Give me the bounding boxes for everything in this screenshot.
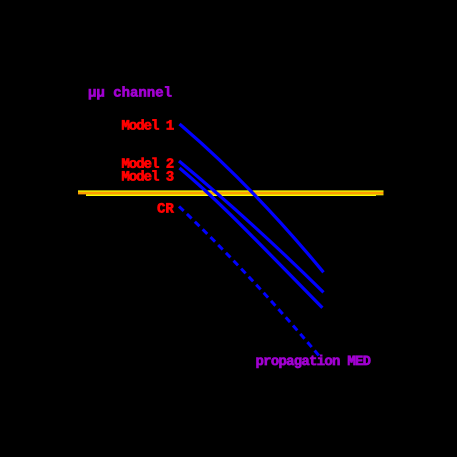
label propagation MED	[256, 355, 370, 368]
limit line lower yellow stripe	[86, 194, 376, 196]
label Model 1	[122, 119, 174, 129]
curve Model 2	[179, 161, 324, 292]
label Model 3	[122, 170, 173, 180]
label mu mu channel	[89, 86, 172, 99]
limit line upper yellow stripe	[78, 190, 384, 192]
curve CR dashed	[179, 206, 319, 355]
label Model 2	[122, 158, 173, 168]
curve Model 1	[180, 124, 324, 272]
label CR	[158, 203, 174, 213]
limit line orange stripe	[78, 192, 384, 195]
curve Model 3	[180, 168, 323, 308]
limit line lower yellow thin tail	[376, 193, 384, 196]
